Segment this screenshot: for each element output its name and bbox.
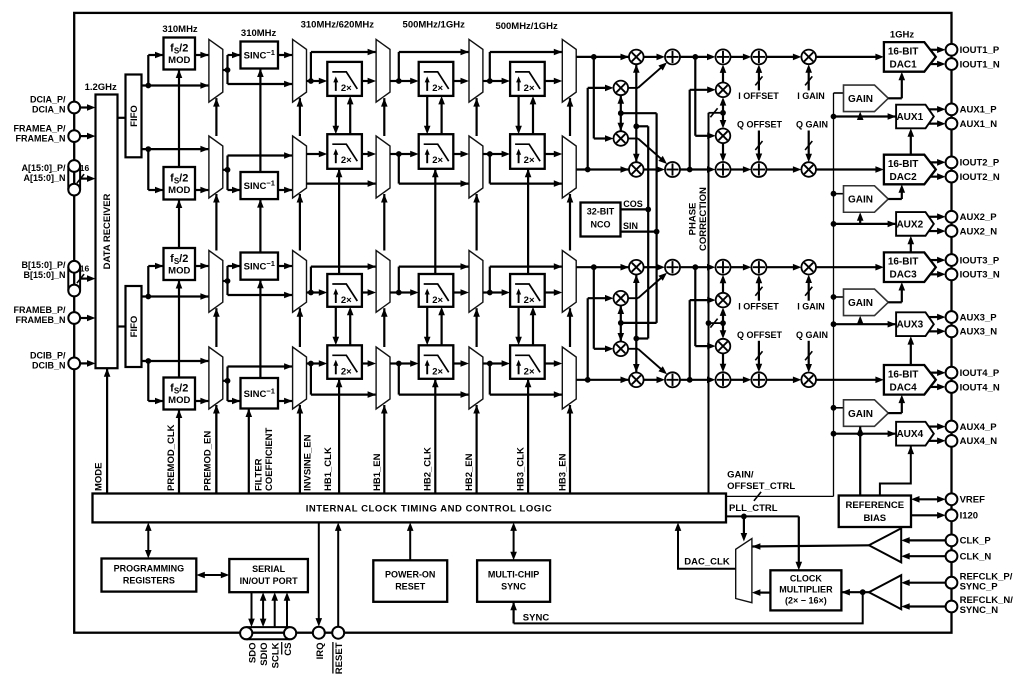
mixer phase 1 (716, 83, 731, 98)
wire mux A output lane B-I (223, 280, 228, 282)
mux E (HB3 select) lane A-I (562, 39, 576, 102)
wire mux C output lane A-Q (390, 153, 399, 155)
svg-text:AUX4_N: AUX4_N (960, 436, 998, 447)
block HB2 interpolation filter lane B-I (419, 274, 454, 307)
block HB1 interpolation filter lane B-Q (327, 345, 362, 379)
adder phase Q (716, 372, 731, 387)
wire PREMOD_CLK control line (178, 70, 180, 494)
svg-text:2×: 2× (432, 155, 443, 166)
svg-text:REGISTERS: REGISTERS (123, 576, 175, 586)
pin CLK_N (946, 550, 958, 562)
wire DAC3 top to AUX2 (910, 242, 912, 252)
svg-text:MOD: MOD (168, 266, 190, 277)
block GAIN 4 (844, 400, 889, 427)
svg-text:SERIAL: SERIAL (252, 564, 286, 574)
pin REFCLK_N/SYNC_N (946, 601, 958, 613)
wire adder Q to phase adder (680, 379, 709, 381)
wire gain bus entry GAIN1 (834, 92, 844, 94)
pin DCIA_P/DCIA_N (68, 102, 80, 114)
wire CLK_P to buffer (908, 539, 946, 541)
svg-text:2×: 2× (524, 295, 535, 306)
svg-text:IOUT3_P: IOUT3_P (960, 255, 1000, 266)
svg-text:DCIB_N: DCIB_N (32, 361, 66, 371)
buffer CLK input triangle (869, 528, 901, 562)
wire HB1 output lane B-I (362, 291, 370, 293)
svg-text:I120: I120 (960, 511, 979, 522)
line phase correction feed (708, 113, 710, 494)
wire I/Q exchange arrows channel A (335, 96, 337, 128)
pin IOUT1_P (946, 44, 958, 56)
svg-text:2×: 2× (524, 155, 535, 166)
wire aux feed AUX4 (831, 431, 837, 437)
svg-text:FRAMEA_N: FRAMEA_N (15, 133, 65, 143)
wire HB1 output lane A-Q (362, 153, 370, 155)
wire SINC output lane A-Q (278, 189, 293, 191)
svg-text:MOD: MOD (168, 395, 190, 406)
adder phase I (716, 49, 731, 64)
pin IOUT1_N (946, 58, 958, 70)
wire I/Q exchange arrows channel B (426, 307, 428, 339)
pin AUX1_P (946, 103, 958, 115)
block HB1 interpolation filter lane A-I (327, 62, 362, 96)
block HB2 interpolation filter lane A-I (419, 62, 454, 96)
svg-text:I OFFSET: I OFFSET (738, 302, 779, 312)
svg-text:A[15:0]_N: A[15:0]_N (23, 173, 65, 183)
svg-text:fS/2: fS/2 (170, 383, 188, 396)
svg-text:2×: 2× (524, 83, 535, 94)
svg-text:16-BIT: 16-BIT (888, 257, 919, 268)
adder I lane (665, 260, 680, 275)
adder Q lane (665, 372, 680, 387)
wire DAC1 to output pins (930, 49, 940, 51)
wire phase mixer 1 to I adder (722, 71, 724, 83)
wire HB2_EN control line (476, 405, 478, 494)
wire Q GAIN control arrow (808, 131, 810, 156)
wire Q OFFSET control arrow (758, 341, 760, 366)
wire phase mixer 2 to Q adder (722, 353, 724, 365)
mux A (input select) lane B-I (209, 251, 223, 313)
svg-text:DAC_CLK: DAC_CLK (684, 557, 730, 568)
mux A (input select) lane A-Q (209, 136, 223, 198)
svg-text:500MHz/1GHz: 500MHz/1GHz (495, 21, 558, 32)
svg-text:IRQ: IRQ (315, 643, 326, 660)
wire AUX3 to output pins (929, 316, 940, 318)
wire DAC2 to output pins (930, 161, 940, 163)
svg-text:Q GAIN: Q GAIN (796, 330, 828, 340)
pin A[15:0] bus (67, 166, 69, 190)
svg-text:RESET: RESET (395, 582, 426, 592)
block HB1 interpolation filter lane A-Q (327, 134, 362, 169)
wire DAC4 to output pins (930, 372, 940, 374)
svg-text:GAIN/: GAIN/ (727, 470, 754, 481)
pin FRAMEA_P/FRAMEA_N (68, 130, 80, 142)
wire DCIB to data receiver (80, 362, 89, 364)
line phase correction feed B dot (706, 320, 712, 326)
wire INVSINE_EN control line (299, 405, 301, 494)
wire PLL_CTRL (726, 515, 799, 517)
wire phase adder to offset adder Q (731, 379, 745, 381)
block AUX4 (896, 422, 934, 446)
block SINC inverse filter lane A-I (241, 42, 279, 69)
svg-text:GAIN: GAIN (848, 409, 873, 420)
svg-text:MOD: MOD (168, 185, 190, 196)
block HB1 interpolation filter lane B-I (327, 274, 362, 307)
svg-text:HB1_EN: HB1_EN (372, 453, 383, 491)
wire MOD to mux lane B-I (195, 265, 209, 267)
wire gain bus entry GAIN2 (834, 193, 844, 195)
wire gain bus entry GAIN4 (834, 407, 844, 409)
block HB3 interpolation filter lane B-I (510, 274, 545, 307)
wire HB3 output lane B-Q (545, 362, 556, 364)
block INTERNAL CLOCK TIMING AND CONTROL LOGIC bar (93, 494, 727, 523)
wire cross mixer 2 diagonal to Q adder (628, 348, 638, 350)
svg-text:AUX2: AUX2 (896, 219, 923, 230)
mixer I x sin (cross 2) (614, 131, 629, 146)
wire HB3 output lane B-I (545, 291, 556, 293)
wire phase mixer 2 to Q adder (722, 143, 724, 155)
wire MOD to mux lane A-Q (195, 189, 209, 191)
wire Q tap to cross mixer 1 (587, 298, 589, 380)
wire GAIN3 to DAC3 (888, 301, 902, 303)
svg-text:2×: 2× (341, 295, 352, 306)
mux B (sinc select) lane B-I (293, 251, 307, 313)
svg-text:B[15:0]_N: B[15:0]_N (23, 270, 65, 280)
svg-text:310MHz: 310MHz (241, 28, 277, 39)
svg-text:16: 16 (80, 163, 90, 173)
wire Q feed to phase mixer 1 (689, 90, 691, 170)
wire mux A output lane A-I (223, 69, 228, 71)
svg-text:I OFFSET: I OFFSET (738, 91, 779, 101)
wire I/Q exchange arrows channel B (517, 307, 519, 339)
wire HB1 output lane B-Q (362, 362, 370, 364)
svg-text:fS/2: fS/2 (170, 172, 188, 185)
wire mux B output lane A-I (307, 80, 311, 82)
svg-text:FRAMEB_P/: FRAMEB_P/ (13, 305, 66, 315)
pin AUX2_N (946, 225, 958, 237)
wire REFCLK_N to buffer (908, 605, 946, 607)
block 16-BIT DAC3 (884, 252, 936, 282)
svg-text:MOD: MOD (168, 55, 190, 66)
wire mux C output lane B-Q (390, 362, 399, 364)
wire DAC3 to output pins (930, 259, 940, 261)
block AUX2 (896, 212, 934, 236)
svg-text:RESET: RESET (334, 642, 345, 674)
block POWER-ON RESET (373, 560, 447, 602)
svg-text:DAC2: DAC2 (889, 172, 917, 183)
block HB3 interpolation filter lane A-I (510, 62, 545, 96)
svg-text:SDIO: SDIO (259, 643, 270, 666)
wire I GAIN control arrow (808, 71, 810, 91)
wire DAC_CLK output (678, 528, 736, 569)
svg-text:IOUT1_P: IOUT1_P (960, 45, 1000, 56)
wire mux D output lane B-I (483, 291, 490, 293)
svg-text:DCIB_P/: DCIB_P/ (30, 351, 66, 361)
wire cross mixer 2 diagonal to Q adder (628, 138, 638, 140)
wire I/Q exchange arrows channel A (517, 96, 519, 128)
wire mux E output Q lane to mixer (576, 379, 629, 381)
mixer phase 2 (716, 339, 731, 354)
svg-text:16-BIT: 16-BIT (888, 46, 919, 57)
adder I offset (751, 49, 766, 64)
svg-text:1.2GHz: 1.2GHz (85, 82, 117, 93)
wire sin distribution to cross mixers (620, 95, 622, 131)
svg-text:DAC4: DAC4 (889, 382, 917, 393)
wire FRAMEA to data receiver (80, 135, 89, 137)
svg-text:16-BIT: 16-BIT (888, 159, 919, 170)
wire mixer I to adder (644, 266, 659, 268)
svg-text:2×: 2× (524, 366, 535, 377)
wire gain mult to DAC Q (816, 168, 877, 170)
wire HB2 output lane A-Q (453, 153, 462, 155)
wire Q OFFSET control arrow (758, 131, 760, 156)
svg-text:1GHz: 1GHz (890, 30, 915, 41)
svg-text:OFFSET_CTRL: OFFSET_CTRL (727, 481, 795, 492)
svg-text:AUX2_N: AUX2_N (960, 226, 998, 237)
block HB3 interpolation filter lane B-Q (510, 345, 545, 379)
wire GAIN2 to DAC2 (888, 198, 902, 200)
svg-text:IOUT4_N: IOUT4_N (960, 382, 1000, 393)
wire data receiver to FIFO A (118, 117, 126, 119)
wire HB3 output lane A-I (545, 80, 556, 82)
pin IOUT4_P (946, 367, 958, 379)
wire SDIO bidirectional (262, 597, 264, 621)
svg-text:DATA RECEIVER: DATA RECEIVER (102, 193, 113, 269)
wire CS (286, 597, 288, 627)
adder phase I (716, 260, 731, 275)
svg-text:IOUT4_P: IOUT4_P (960, 368, 1000, 379)
wire mux D output lane B-Q (483, 362, 490, 364)
wire phase coefficient tap (709, 322, 724, 324)
svg-text:CS: CS (283, 643, 294, 656)
wire FILTER COEFFICIENT control line (248, 409, 250, 494)
wire GAIN4 to DAC4 (888, 412, 902, 414)
buffer REFCLK input triangle (869, 575, 901, 609)
svg-text:COEFFICIENT: COEFFICIENT (264, 427, 275, 491)
wire gain mult to DAC I (816, 266, 877, 268)
wire HB1_CLK control line (338, 379, 340, 494)
wire reference bias to GAIN4 (859, 426, 861, 495)
wire mux B output lane B-Q (307, 362, 311, 364)
wire programming registers to serial port bidirectional (202, 574, 225, 576)
block HB3 interpolation filter lane A-Q (510, 134, 545, 169)
svg-text:FILTER: FILTER (254, 458, 265, 491)
svg-text:2×: 2× (432, 366, 443, 377)
pin IOUT4_N (946, 381, 958, 393)
mixer I x cos (629, 50, 644, 65)
mult Q gain (801, 162, 816, 177)
mux C (HB1 select) lane B-I (376, 251, 390, 313)
pin RESET (332, 627, 344, 639)
svg-text:GAIN: GAIN (848, 298, 873, 309)
wire multi-chip sync to bar bidirectional (513, 528, 515, 556)
wire offset adder to gain mult I (766, 266, 795, 268)
svg-text:POWER-ON: POWER-ON (385, 570, 436, 580)
wire SINC coefficient inter-box segments (259, 69, 261, 253)
adder I offset (751, 260, 766, 275)
svg-text:16: 16 (80, 264, 90, 274)
wire Q feed to phase mixer 1 (689, 300, 691, 380)
svg-text:CLK_N: CLK_N (960, 552, 992, 563)
svg-text:DCIA_N: DCIA_N (32, 105, 66, 115)
block SINC inverse filter lane A-Q (241, 172, 279, 199)
block HB2 interpolation filter lane A-Q (419, 134, 454, 169)
block DATA RECEIVER (96, 95, 118, 369)
svg-text:PHASE: PHASE (688, 203, 699, 236)
pin CLK_P (946, 535, 958, 547)
wire phase mixer 1 to I adder (722, 281, 724, 293)
mixer Q x cos (629, 162, 644, 177)
svg-text:500MHz/1GHz: 500MHz/1GHz (403, 20, 466, 31)
block REFERENCE BIAS (839, 496, 911, 528)
svg-text:AUX2_P: AUX2_P (960, 212, 998, 223)
wire HB3_CLK control line (527, 379, 529, 494)
wire adder I to phase adder (680, 266, 709, 268)
wire mixer Q to adder (644, 168, 659, 170)
wire AUX2 to output pins (929, 216, 940, 218)
wire Q tap to cross mixer 1 (587, 88, 589, 170)
mux E (HB3 select) lane B-I (562, 251, 576, 313)
svg-text:MODE: MODE (94, 463, 105, 492)
wire cross mixer 1 diagonal to I adder (628, 297, 638, 299)
svg-text:PLL_CTRL: PLL_CTRL (729, 503, 778, 514)
svg-text:AUX4_P: AUX4_P (960, 422, 998, 433)
svg-text:GAIN: GAIN (848, 195, 873, 206)
svg-text:AUX1_P: AUX1_P (960, 105, 998, 116)
svg-text:INVSINE_EN: INVSINE_EN (303, 434, 314, 491)
wire FIFO output lane B-Q (142, 360, 209, 362)
svg-text:16-BIT: 16-BIT (888, 369, 919, 380)
wire gain mult to DAC Q (816, 379, 877, 381)
block 32-BIT NCO (581, 203, 621, 237)
svg-text:BIAS: BIAS (863, 513, 886, 524)
mixer phase 2 (716, 129, 731, 144)
svg-text:HB2_EN: HB2_EN (464, 453, 475, 491)
svg-text:2×: 2× (432, 83, 443, 94)
wire mux E output I lane to mixer (576, 266, 629, 268)
svg-text:SIN: SIN (623, 221, 638, 231)
wire I tap to cross mixer 2 (593, 267, 595, 349)
svg-text:NCO: NCO (591, 220, 611, 230)
wire phase coefficient tap (709, 112, 724, 114)
svg-text:REFERENCE: REFERENCE (846, 500, 905, 511)
wire mux A output lane B-Q (223, 380, 228, 382)
wire I feed to phase mixer 2 (694, 57, 696, 136)
wire cross mixer 1 diagonal to I adder (628, 87, 638, 89)
svg-text:MULTIPLIER: MULTIPLIER (779, 585, 833, 595)
svg-text:B[15:0]_P/: B[15:0]_P/ (21, 260, 66, 270)
svg-text:Q OFFSET: Q OFFSET (737, 330, 783, 340)
svg-text:CORRECTION: CORRECTION (698, 187, 709, 251)
mux DAC_CLK select (736, 539, 752, 603)
svg-text:SYNC: SYNC (501, 582, 527, 592)
wire AUX1 to output pins (929, 108, 940, 110)
wire clock multiplier to DAC_CLK mux (758, 591, 770, 593)
svg-text:PREMOD_CLK: PREMOD_CLK (166, 424, 177, 491)
wire DAC2 top to AUX1 (910, 135, 912, 155)
wire mux D output lane A-Q (483, 153, 490, 155)
pin IRQ (313, 627, 325, 639)
wire MOD to mux lane B-Q (195, 400, 209, 402)
svg-text:SYNC: SYNC (523, 613, 550, 624)
svg-text:310MHz: 310MHz (162, 24, 198, 35)
mux C (HB1 select) lane A-I (376, 39, 390, 102)
adder I lane (665, 49, 680, 64)
wire gain bus entry GAIN3 (834, 296, 844, 298)
wire HB2 output lane B-I (453, 291, 462, 293)
svg-text:2×: 2× (341, 155, 352, 166)
block FIFO A (126, 75, 142, 158)
wire mux B output lane A-Q (307, 153, 321, 155)
block fs/2 MOD lane A-Q (164, 167, 196, 200)
svg-text:SDO: SDO (248, 643, 259, 664)
svg-text:AUX3_P: AUX3_P (960, 312, 998, 323)
wire adder Q to phase adder (680, 168, 709, 170)
pin AUX4_P (946, 421, 958, 433)
block GAIN 2 (844, 186, 889, 213)
wire mux A output lane A-Q (223, 169, 228, 171)
wire B bus to data receiver (80, 278, 89, 280)
wire REFCLK buffer to clock multiplier (841, 591, 869, 593)
svg-text:PROGRAMMING: PROGRAMMING (114, 564, 185, 574)
pin VREF (946, 493, 958, 505)
svg-text:fS/2: fS/2 (170, 43, 188, 56)
svg-text:Q GAIN: Q GAIN (796, 120, 828, 130)
wire DAC4 top to AUX3 (910, 343, 912, 365)
adder Q offset (751, 162, 766, 177)
wire mux D output lane A-I (483, 80, 490, 82)
svg-text:MULTI-CHIP: MULTI-CHIP (488, 570, 539, 580)
wire NCO cos vertical (647, 126, 649, 338)
block GAIN 3 (844, 289, 889, 316)
mux D (HB2 select) lane B-I (469, 251, 483, 313)
pin REFCLK_P/SYNC_P (946, 577, 958, 589)
chip boundary (74, 13, 951, 633)
pin FRAMEB_P/FRAMEB_N (68, 312, 80, 324)
block FIFO B (126, 286, 142, 367)
svg-text:AUX3: AUX3 (896, 320, 923, 331)
wire mux E output Q lane to mixer (576, 168, 629, 170)
mux A (input select) lane B-Q (209, 347, 223, 409)
wire RESET (337, 528, 339, 627)
svg-text:FIFO: FIFO (129, 316, 140, 338)
svg-text:2×: 2× (432, 295, 443, 306)
wire I GAIN control arrow (808, 281, 810, 301)
block MULTI-CHIP SYNC (477, 560, 550, 602)
svg-text:DAC3: DAC3 (889, 270, 917, 281)
wire Q GAIN control arrow (808, 341, 810, 366)
svg-text:fS/2: fS/2 (170, 253, 188, 266)
wire PREMOD_EN control line to input muxes (215, 405, 217, 494)
pin AUX3_N (946, 325, 958, 337)
block SERIAL IN/OUT PORT (229, 559, 308, 592)
wire phase adder to offset adder I (731, 56, 745, 58)
wire HB2 output lane A-I (453, 80, 462, 82)
wire aux feed AUX2 (831, 221, 837, 227)
block 16-BIT DAC4 (884, 365, 936, 395)
mult Q gain (801, 373, 816, 388)
wire HB2_CLK control line (434, 379, 436, 494)
pin AUX3_P (946, 311, 958, 323)
wire HB1 output lane A-I (362, 80, 370, 82)
svg-text:HB3_EN: HB3_EN (558, 453, 569, 491)
wire REFCLK_P to buffer (908, 582, 946, 584)
block CLOCK MULTIPLIER (770, 570, 841, 610)
block 16-BIT DAC2 (884, 155, 936, 185)
wire offset adder to gain mult Q (766, 168, 795, 170)
wire I tap to cross mixer 2 (593, 57, 595, 139)
svg-text:2×: 2× (341, 83, 352, 94)
svg-text:2×: 2× (341, 366, 352, 377)
